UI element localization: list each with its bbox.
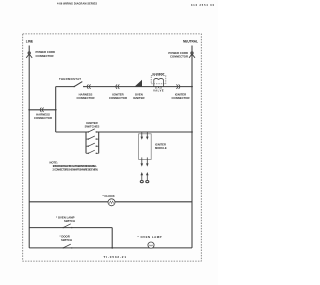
svg-text:ELEMENT: ELEMENT <box>153 72 165 76</box>
svg-text:* OVEN LAMP: * OVEN LAMP <box>138 235 162 239</box>
svg-text:SWITCHES: SWITCHES <box>85 125 100 129</box>
svg-text:SWITCH: SWITCH <box>61 238 72 242</box>
svg-text:316 2554 00: 316 2554 00 <box>191 4 215 7</box>
svg-text:LINE: LINE <box>26 40 33 44</box>
svg-text:IGNITER: IGNITER <box>133 96 144 100</box>
svg-text:THERMOSTAT: THERMOSTAT <box>59 77 81 81</box>
svg-text:MODULE: MODULE <box>155 146 167 150</box>
svg-text:NOTE:: NOTE: <box>50 161 58 165</box>
svg-text:CONNECTOR: CONNECTOR <box>172 96 190 100</box>
svg-text:4-86 WIRING DIAGRAM SERIES: 4-86 WIRING DIAGRAM SERIES <box>57 3 97 6</box>
svg-text:CONNECTOR: CONNECTOR <box>36 54 54 58</box>
svg-text:* CLOCK: * CLOCK <box>103 194 116 198</box>
svg-text:CONNECTOR: CONNECTOR <box>34 116 52 120</box>
svg-text:CONNECTOR: CONNECTOR <box>77 96 95 100</box>
svg-text:2. CONNECTORS SHOWN FROM WIRE: 2. CONNECTORS SHOWN FROM WIRE SIDE VIEW. <box>53 168 99 171</box>
svg-text:SWITCH: SWITCH <box>64 219 75 223</box>
svg-text:TI-0532-21: TI-0532-21 <box>104 255 127 259</box>
svg-text:NEUTRAL: NEUTRAL <box>183 40 198 44</box>
svg-text:CONNECTOR: CONNECTOR <box>170 55 188 59</box>
svg-text:CONNECTOR: CONNECTOR <box>109 96 127 100</box>
svg-text:VALVE: VALVE <box>153 89 164 93</box>
svg-text:IGNITER: IGNITER <box>155 142 166 146</box>
